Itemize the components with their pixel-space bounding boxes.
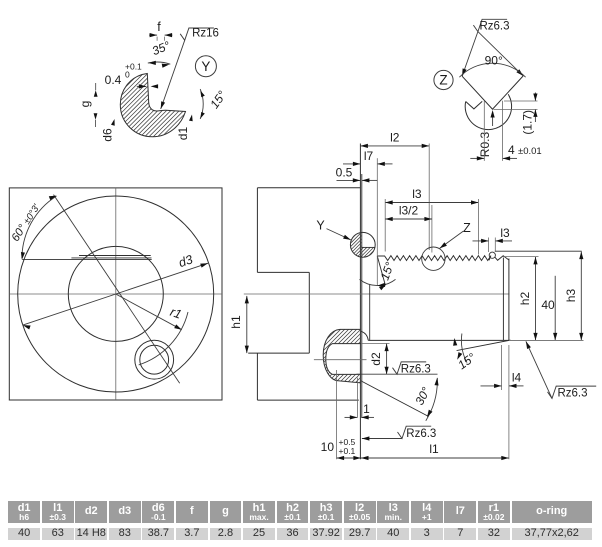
dim l2 <box>360 145 429 147</box>
dim h3 <box>580 252 582 341</box>
d2 hole top edge <box>326 344 361 375</box>
keyway line 3 / 60deg reference <box>22 258 152 260</box>
svg-text:d2: d2 <box>369 352 383 366</box>
side view flange top edge <box>257 187 360 189</box>
small hole outer circle <box>135 340 174 379</box>
svg-text:0.5: 0.5 <box>336 165 353 179</box>
dim l7 <box>343 163 360 165</box>
dim f <box>149 34 157 36</box>
shaft bottom extension for h dims <box>509 339 584 341</box>
svg-text:0: 0 <box>125 70 130 80</box>
l2 right extension <box>428 144 430 251</box>
dim 0.5 <box>337 179 361 181</box>
svg-text:Y: Y <box>316 218 325 232</box>
dim l4 <box>481 385 502 387</box>
svg-text:Rz16: Rz16 <box>192 28 219 40</box>
front view vertical centerline <box>115 188 117 400</box>
dim 35deg arc <box>148 62 171 64</box>
flange back face lower <box>256 353 258 400</box>
svg-text:Y: Y <box>201 59 210 74</box>
shaft top OD line <box>495 250 582 252</box>
l3/2 extension <box>431 205 433 253</box>
svg-text:l2: l2 <box>390 131 400 145</box>
dim R0.3 <box>492 112 494 126</box>
dim 4 ±0.01 <box>483 101 485 161</box>
10 dim left extension <box>336 370 338 459</box>
surface finish Rz6.3 on flange face <box>362 438 402 440</box>
Rz16 leader <box>161 40 185 109</box>
svg-text:d1: d1 <box>176 127 190 141</box>
svg-text:10: 10 <box>321 440 335 454</box>
30deg line <box>361 381 428 416</box>
boss face extension line <box>357 378 359 418</box>
flange front face line B (0.5 step) <box>361 174 363 418</box>
fillet flange face to shaft bottom <box>361 331 368 340</box>
svg-text:+0.1: +0.1 <box>339 446 356 456</box>
keyway line 2 <box>71 257 151 259</box>
svg-text:f: f <box>157 20 161 34</box>
l3 right extension <box>477 199 479 255</box>
15deg end chamfer construction line <box>457 340 511 351</box>
15deg vertical leg <box>376 256 378 286</box>
thread end profile <box>495 256 509 261</box>
groove inner edge line <box>369 285 371 341</box>
dim l1 <box>361 457 509 459</box>
flange back face upper <box>256 188 258 273</box>
svg-text:R0.3: R0.3 <box>478 132 492 158</box>
svg-text:1: 1 <box>363 402 370 416</box>
svg-text:l7: l7 <box>364 149 374 163</box>
svg-text:90°: 90° <box>485 54 503 68</box>
svg-text:0.4: 0.4 <box>105 73 122 87</box>
detail Z groove flanks <box>462 76 523 109</box>
dim 15deg arc (thread start) <box>360 279 396 285</box>
60 deg ray through small hole <box>54 195 180 384</box>
keyway line 1 <box>79 255 151 257</box>
svg-text:Rz6.3: Rz6.3 <box>406 428 436 440</box>
detail Z circle on thread <box>422 247 445 270</box>
front view: square flange outline <box>9 188 222 400</box>
svg-text:(1.7): (1.7) <box>521 110 535 135</box>
thread profile zigzag <box>377 256 491 261</box>
Rz6.3 callout top <box>473 19 507 31</box>
flange notch bottom / h1 extension <box>248 352 309 354</box>
h2 top extension <box>503 256 539 258</box>
surface finish Rz16 <box>180 28 214 40</box>
15deg chamfer construction line <box>377 256 385 285</box>
svg-text:l3/2: l3/2 <box>399 204 419 218</box>
svg-text:l4: l4 <box>512 371 522 385</box>
detail Z thread tooth circle <box>465 94 511 129</box>
dim l3 <box>385 202 478 204</box>
bore circle d1 <box>68 246 163 341</box>
svg-text:l1: l1 <box>429 442 439 456</box>
flange notch side <box>308 272 310 353</box>
svg-text:15°: 15° <box>207 88 229 111</box>
front view horizontal centerline <box>9 293 222 295</box>
shaft end chamfer line <box>502 258 504 341</box>
dimension r1 leader ray <box>116 294 182 330</box>
svg-text:15°: 15° <box>378 260 397 282</box>
thread start flat <box>377 255 384 257</box>
dim 40 <box>554 276 556 341</box>
shaft end face <box>508 259 510 341</box>
dim 10 +0.5 +0.1 <box>337 457 361 459</box>
l4 extensions <box>501 345 503 390</box>
svg-text:60° ±0°3': 60° ±0°3' <box>10 201 43 244</box>
detail Y circle label <box>195 56 216 77</box>
dimension 60deg arc <box>22 196 57 258</box>
svg-text:Rz6.3: Rz6.3 <box>479 21 509 33</box>
outer circle d3 <box>18 196 214 392</box>
detail Z tooth notch <box>466 101 483 109</box>
side view centerline <box>244 293 510 295</box>
o-ring groove section circle <box>350 232 375 257</box>
runout extension lines <box>488 238 490 253</box>
svg-text:30°: 30° <box>412 385 433 408</box>
Rz6.3 leaders to flanks <box>462 32 478 77</box>
d2 hole centerline <box>314 359 367 361</box>
dim 15deg arc (end chamfer) <box>461 334 467 363</box>
small hole inner circle d2 <box>140 345 169 374</box>
dim 1 <box>345 416 358 418</box>
dim h2 <box>535 257 537 341</box>
svg-text:Rz6.3: Rz6.3 <box>401 364 431 376</box>
dim 30deg arc <box>426 378 438 421</box>
svg-text:d6: d6 <box>101 128 115 142</box>
svg-text:35°: 35° <box>150 38 172 58</box>
svg-text:l3: l3 <box>500 226 510 240</box>
svg-text:h3: h3 <box>564 289 578 303</box>
svg-text:h2: h2 <box>518 292 532 306</box>
svg-text:4 ±0.01: 4 ±0.01 <box>508 143 542 157</box>
thread runout circle <box>489 252 495 258</box>
shaft bottom edge <box>368 339 509 341</box>
svg-text:d3: d3 <box>177 252 195 270</box>
flange front face line A <box>359 144 361 460</box>
dimension d3 diameter line <box>23 263 208 325</box>
d2 top extension <box>361 342 390 344</box>
svg-text:40: 40 <box>541 298 555 312</box>
svg-text:Z: Z <box>463 221 471 235</box>
d2 bottom extension / 30deg reference <box>356 373 437 375</box>
dimension r1 arc <box>139 312 188 365</box>
svg-text:r1: r1 <box>168 305 183 322</box>
detail Y groove section body <box>120 74 185 137</box>
dim d2 <box>386 344 388 375</box>
dim h1 <box>246 296 248 353</box>
svg-text:Rz6.3: Rz6.3 <box>557 388 587 400</box>
flange notch top <box>257 271 309 273</box>
d2 boss outer profile <box>323 329 361 383</box>
detail Z circle label <box>434 70 453 89</box>
l1 right extension <box>508 345 510 459</box>
surface finish Rz6.3 on d2 <box>393 362 427 374</box>
svg-text:h1: h1 <box>229 315 243 329</box>
svg-text:g: g <box>78 101 92 108</box>
o-ring groove floor line <box>361 246 375 248</box>
dim l3/2 <box>385 218 432 220</box>
parameter table <box>0 501 602 541</box>
dim 90deg arc <box>459 63 525 77</box>
l3 left extension <box>384 199 386 252</box>
svg-text:Z: Z <box>439 73 447 88</box>
svg-text:l3: l3 <box>412 187 422 201</box>
surface finish Rz6.3 bottom right <box>526 341 552 398</box>
flange bottom edge <box>257 399 358 401</box>
dim (1.7) <box>534 93 536 102</box>
l7 extension <box>376 158 378 256</box>
dim l3 small (thread runout) <box>473 240 489 242</box>
